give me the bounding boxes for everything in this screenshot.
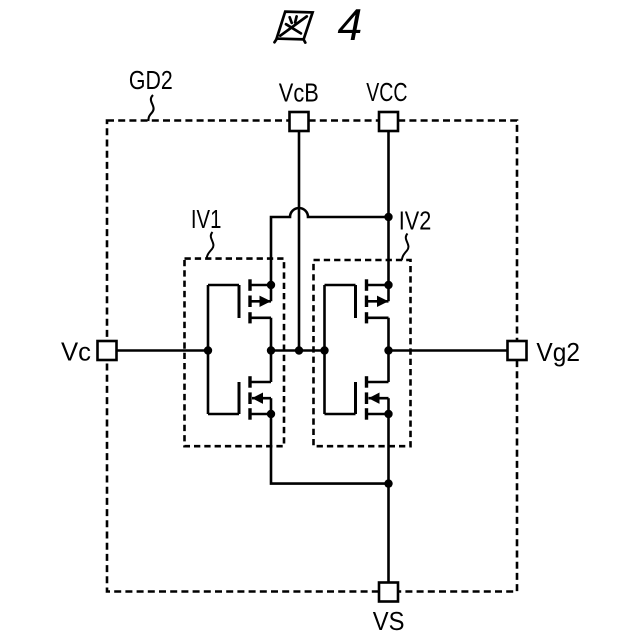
terminal VCC: [379, 112, 398, 131]
svg-text:IV1: IV1: [191, 204, 222, 234]
svg-text:GD2: GD2: [129, 65, 173, 95]
leader IV1: [207, 232, 214, 258]
leader IV2: [402, 234, 409, 261]
svg-text:4: 4: [338, 1, 363, 50]
svg-text:VcB: VcB: [279, 77, 319, 107]
terminal VcB: [290, 112, 309, 131]
terminal Vc: [98, 341, 117, 360]
pmos IV1 upper: [239, 279, 271, 382]
wire mid net (IV1 out to IV2 in, VcB tap): [271, 349, 325, 352]
leader GD2: [148, 95, 153, 121]
wire top rail with hop over VcB: [271, 208, 389, 301]
svg-text:IV2: IV2: [399, 205, 432, 235]
dashed box IV2: [314, 260, 411, 446]
outer dashed box GD2: [107, 121, 517, 592]
nmos IV2 lower: [356, 376, 389, 420]
pmos IV2 upper: [356, 279, 389, 382]
terminal VS: [379, 583, 398, 602]
figure title FIG 4 (zu glyph): [275, 12, 313, 43]
wire VcB vertical: [298, 122, 301, 351]
inverter IV1 input bracket: [208, 285, 239, 414]
svg-text:VCC: VCC: [366, 77, 407, 107]
inverter IV2 input bracket: [325, 285, 356, 414]
wire VS column: [387, 414, 390, 592]
wire Vc input: [107, 349, 208, 352]
dashed box IV1: [185, 259, 285, 447]
junction dots: [204, 213, 393, 488]
svg-text:Vc: Vc: [61, 336, 91, 366]
terminal Vg2: [508, 341, 527, 360]
nmos IV1 lower: [239, 376, 271, 420]
svg-text:Vg2: Vg2: [536, 337, 580, 367]
wire VCC column: [387, 122, 390, 302]
wire bottom rail: [271, 414, 389, 484]
wire IV2 out to Vg2: [389, 349, 518, 352]
svg-text:VS: VS: [373, 606, 405, 636]
